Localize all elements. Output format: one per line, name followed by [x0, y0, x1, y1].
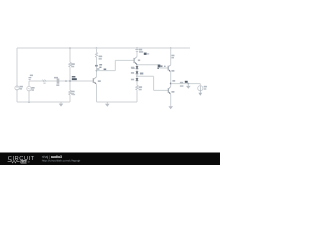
- wire bottom middle rail: [97, 101, 138, 103]
- label near bottom corner: [72, 94, 75, 95]
- node collector of Q1: [96, 70, 98, 72]
- junction mark on base wire: [164, 66, 166, 67]
- ground symbol (bottom-left): [59, 102, 64, 107]
- logo LAB box: [20, 160, 26, 164]
- resistor R3 (collector load): [95, 52, 97, 57]
- current source I1 (load): [198, 84, 203, 96]
- wire top supply rail: [17, 47, 190, 49]
- probe marks on input wire: [43, 79, 47, 83]
- footer bar: [0, 153, 220, 166]
- node name label (dark) at divider: [72, 76, 76, 78]
- transistor Q2 (driver): [134, 57, 137, 65]
- node emitter junction of Q2: [136, 64, 138, 66]
- label Q4: [171, 91, 174, 93]
- label V2 value: [31, 87, 34, 91]
- wire bias node to lower output base: [137, 76, 168, 90]
- transistor Q1 (input stage): [93, 77, 96, 84]
- label beside cell: [139, 49, 143, 53]
- node name label (dark) on emitter wire: [158, 65, 161, 68]
- wire R4 to bottom: [136, 90, 138, 102]
- node between D2 and D3: [136, 75, 138, 77]
- wire collector vertical (x=96.5): [96, 48, 98, 102]
- wire collector to Q2 base: [97, 60, 134, 70]
- signal source V2: [27, 86, 31, 90]
- label R1: [71, 63, 75, 67]
- wire Q4 emitter to ground: [170, 94, 172, 106]
- wire Q2 collector to rail: [136, 48, 138, 57]
- label Q2 below: [131, 67, 134, 69]
- resistor R1 (upper divider): [69, 62, 72, 67]
- node ground tap on output wire: [188, 83, 190, 85]
- label R4: [139, 86, 142, 90]
- junction dots on top rail: [69, 47, 171, 49]
- node output junction: [170, 83, 172, 85]
- diode D1: [136, 65, 139, 72]
- svg-text:LAB: LAB: [21, 160, 28, 164]
- label near rail right: [171, 55, 174, 59]
- diode D3: [136, 76, 139, 85]
- label D3: [131, 79, 134, 81]
- transistor Q3 (upper output): [168, 65, 171, 72]
- logo resistor zigzag: [8, 160, 20, 163]
- label D2: [131, 72, 134, 74]
- node label above V2 corner: [30, 75, 33, 77]
- wire bottom-left ground rail: [17, 101, 70, 103]
- junction input wire x divider: [69, 80, 71, 82]
- node name label near rail (dark): [144, 53, 147, 55]
- transistor Q4 (lower output): [168, 87, 170, 95]
- capacitor C1: [57, 79, 59, 84]
- resistor R4: [136, 85, 139, 90]
- label right of D2: [140, 73, 143, 75]
- ground symbol (bottom middle): [105, 102, 110, 107]
- label q designator: [138, 60, 140, 62]
- wire divider vertical (x=70): [69, 48, 71, 102]
- wire Q3 emitter down to output node: [170, 72, 172, 87]
- labels left of output ground: [180, 82, 184, 87]
- voltage source V1: [15, 86, 19, 90]
- label V1 value: [20, 86, 23, 90]
- dark node name at output: [185, 81, 188, 83]
- node on input wire: [65, 80, 67, 82]
- label R2: [71, 91, 74, 95]
- ground symbol (output stage): [168, 106, 173, 109]
- label Q1: [98, 80, 101, 82]
- label R3: [99, 56, 103, 60]
- wire input horizontal: [29, 80, 93, 82]
- resistor R2 (lower divider): [69, 90, 72, 95]
- diode D2: [136, 71, 139, 76]
- capacitor/cell plates below rail: [135, 50, 138, 52]
- wire V2 vertical: [28, 81, 30, 102]
- label at output node: [172, 80, 175, 82]
- wire output to load: [171, 83, 201, 85]
- dark annotation near collector node: [95, 64, 106, 70]
- wire left vertical (V1 branch): [16, 48, 18, 102]
- label C1: [54, 77, 59, 86]
- svg-text:http://circuitlab.com/c/hqpqjr: http://circuitlab.com/c/hqpqjr: [42, 159, 81, 163]
- logo trailing mark: [28, 161, 30, 163]
- label I1: [204, 86, 207, 90]
- label D1: [131, 67, 134, 69]
- label Q3: [171, 70, 174, 72]
- ground symbol (output tap): [186, 84, 191, 89]
- wire emitter to output stage bases: [137, 65, 168, 68]
- node junction bottom rail at V2: [28, 101, 30, 103]
- wire Q3 collector to rail: [170, 48, 172, 65]
